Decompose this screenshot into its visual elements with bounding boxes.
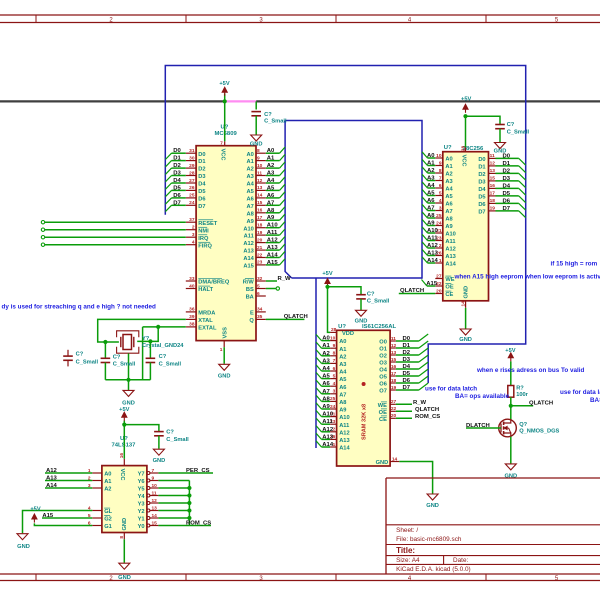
pin decoder Y7 (pin 7) xyxy=(147,472,150,475)
svg-text:HALT: HALT xyxy=(198,287,213,293)
bus entry RAM A8 xyxy=(316,395,322,401)
svg-text:A14: A14 xyxy=(46,483,58,489)
pin RAM A5 (pin 5) xyxy=(330,378,337,380)
wire ROM OE xyxy=(427,285,435,287)
pin E (pin 34) xyxy=(256,311,266,313)
svg-text:if 15 high = rom: if 15 high = rom xyxy=(551,260,598,267)
svg-text:A1: A1 xyxy=(267,156,275,162)
wire RAM CE xyxy=(396,417,412,419)
svg-text:10: 10 xyxy=(436,153,442,159)
svg-text:Y2: Y2 xyxy=(138,509,145,515)
svg-text:Y0: Y0 xyxy=(138,524,145,530)
wire +5V to ROM VCC xyxy=(465,115,467,148)
svg-text:BA: BA xyxy=(246,295,254,301)
svg-text:A0: A0 xyxy=(339,339,346,345)
pin MRDY (pin 36) xyxy=(186,311,196,313)
bus entry ROM A3 xyxy=(422,174,428,180)
svg-text:A15: A15 xyxy=(243,264,253,270)
wire A12 to decoder A0 xyxy=(45,472,92,474)
svg-text:16: 16 xyxy=(490,183,496,189)
pin ROM D7 (pin 19) xyxy=(489,210,496,212)
svg-text:9: 9 xyxy=(152,475,155,481)
svg-text:A13: A13 xyxy=(322,434,334,440)
svg-text:A13: A13 xyxy=(243,249,253,255)
wire D0 xyxy=(172,152,186,154)
wire ROM D2 xyxy=(496,172,519,174)
wire A12 xyxy=(266,242,280,244)
pin ROM D1 (pin 12) xyxy=(489,165,496,167)
svg-text:WE: WE xyxy=(378,403,387,409)
wire D5 xyxy=(172,189,186,191)
svg-text:17: 17 xyxy=(391,371,397,377)
svg-text:A3: A3 xyxy=(322,358,330,364)
svg-text:A12: A12 xyxy=(427,243,439,249)
svg-text:O1: O1 xyxy=(379,347,387,353)
svg-text:25: 25 xyxy=(330,396,336,402)
bus entry ROM A2 xyxy=(422,167,428,173)
pin A4 (pin 12) xyxy=(256,182,266,184)
svg-text:2: 2 xyxy=(439,243,442,249)
svg-text:A5: A5 xyxy=(247,189,254,195)
svg-text:A6: A6 xyxy=(247,197,254,203)
svg-text:+5V: +5V xyxy=(219,81,229,87)
title block xyxy=(386,478,600,574)
pin ROM D2 (pin 13) xyxy=(489,172,496,174)
pin RAM D4 (pin 16) xyxy=(390,368,396,370)
pin decoder A2 (pin 3) xyxy=(92,487,102,489)
svg-text:Y6: Y6 xyxy=(138,479,145,485)
ground xyxy=(427,494,438,500)
svg-text:D1: D1 xyxy=(173,156,181,162)
bus entry RAM D2 xyxy=(419,348,428,355)
pin D7 (pin 24) xyxy=(186,204,196,206)
pin RAM D3 (pin 15) xyxy=(390,361,396,363)
wire RAM A14 xyxy=(322,446,331,448)
pin RAM A7 (pin 3) xyxy=(330,393,337,395)
pin ROM A10 (pin 21) xyxy=(435,232,443,234)
svg-text:OE: OE xyxy=(379,410,387,416)
wire EXTAL drop to crystal right pin xyxy=(137,327,158,342)
svg-text:A0: A0 xyxy=(267,148,275,154)
svg-text:25: 25 xyxy=(436,213,442,219)
sheet border top xyxy=(0,14,600,16)
pin D0 (pin 31) xyxy=(186,152,196,154)
svg-text:A12: A12 xyxy=(243,241,253,247)
svg-text:use for data latch: use for data latch xyxy=(560,389,600,396)
ground xyxy=(123,390,134,396)
ground xyxy=(119,563,130,569)
wire resistor to drain xyxy=(510,397,512,419)
svg-text:C?: C? xyxy=(264,112,272,118)
svg-text:A4: A4 xyxy=(339,370,347,376)
svg-text:A8: A8 xyxy=(427,213,435,219)
wire RAM GND xyxy=(399,462,432,494)
svg-text:D1: D1 xyxy=(503,161,511,167)
svg-text:28: 28 xyxy=(189,170,195,176)
wire A2 xyxy=(266,167,280,169)
svg-text:22: 22 xyxy=(257,252,263,258)
svg-text:O4: O4 xyxy=(379,368,387,374)
svg-text:ROM_CS: ROM_CS xyxy=(415,414,440,420)
bus entry RAM A9 xyxy=(316,403,322,409)
svg-text:37: 37 xyxy=(189,217,195,223)
svg-text:A2: A2 xyxy=(322,351,330,357)
svg-text:D7: D7 xyxy=(173,200,181,206)
svg-text:A4: A4 xyxy=(322,366,330,372)
svg-text:GND: GND xyxy=(122,518,128,531)
svg-text:U?: U? xyxy=(338,324,346,330)
svg-text:9: 9 xyxy=(439,160,442,166)
transistor Q? Q_NMOS_DGS xyxy=(499,419,517,437)
svg-text:A14: A14 xyxy=(427,258,439,264)
svg-text:C_Small: C_Small xyxy=(507,130,530,136)
bus entry RAM D4 xyxy=(419,362,428,369)
pin RAM A14 (pin 1) xyxy=(330,446,337,448)
svg-text:C?: C? xyxy=(76,351,84,357)
svg-text:23: 23 xyxy=(257,260,263,266)
wire decoder GND xyxy=(123,539,125,563)
svg-text:14: 14 xyxy=(460,301,466,307)
bus entry RAM A14 xyxy=(316,441,322,447)
svg-text:18: 18 xyxy=(490,198,496,204)
bus entry A8 xyxy=(280,207,286,213)
wire RAM D1 xyxy=(396,347,419,349)
wire RAM D7 xyxy=(396,389,419,391)
svg-text:A13: A13 xyxy=(339,438,349,444)
svg-text:GND: GND xyxy=(494,149,507,155)
ground xyxy=(356,310,367,316)
svg-text:A8: A8 xyxy=(445,217,452,223)
svg-text:+5V: +5V xyxy=(505,348,515,354)
pin RAM A11 (pin 23) xyxy=(330,423,337,425)
bus entry A0 xyxy=(280,147,286,153)
pin Q (pin 35) xyxy=(256,318,266,320)
pin ROM OE (pin 22) xyxy=(435,285,443,287)
wire ROM A0 xyxy=(428,157,436,159)
svg-text:D4: D4 xyxy=(503,183,511,189)
bus entry A15 xyxy=(280,259,286,265)
svg-text:D4: D4 xyxy=(173,178,181,184)
svg-text:3: 3 xyxy=(192,232,195,238)
svg-text:A1: A1 xyxy=(322,343,330,349)
svg-text:O6: O6 xyxy=(379,382,387,388)
svg-text:32: 32 xyxy=(257,276,263,282)
svg-text:D6: D6 xyxy=(198,197,205,203)
svg-text:A13: A13 xyxy=(46,475,58,481)
svg-text:NMI: NMI xyxy=(198,228,209,234)
svg-text:D7: D7 xyxy=(503,206,511,212)
pin A6 (pin 14) xyxy=(256,197,266,199)
wire RAM A10 xyxy=(322,416,331,418)
svg-text:EXTAL: EXTAL xyxy=(198,326,217,332)
svg-text:A8: A8 xyxy=(339,400,346,406)
bus address top horizontal xyxy=(285,121,422,279)
svg-text:12: 12 xyxy=(257,178,263,184)
ground xyxy=(505,464,516,470)
svg-text:A15: A15 xyxy=(426,281,438,287)
bus entry A15 to ROM OE xyxy=(422,280,427,287)
bus entry ROM D0 xyxy=(519,158,526,165)
svg-text:A14: A14 xyxy=(339,446,350,452)
pin RAM A13 (pin 26) xyxy=(330,438,337,440)
bus entry A11 xyxy=(280,229,286,235)
svg-text:O5: O5 xyxy=(379,375,387,381)
pin RAM A0 (pin 10) xyxy=(330,340,337,342)
pin A9 (pin 17) xyxy=(256,219,266,221)
svg-text:C_Small: C_Small xyxy=(264,118,287,124)
svg-text:A12: A12 xyxy=(322,427,334,433)
bus entry ROM A4 xyxy=(422,182,428,188)
svg-text:GND: GND xyxy=(250,141,263,147)
bus entry A12 xyxy=(280,236,286,242)
wire ROM A2 xyxy=(428,172,436,174)
pin decoder VCC (pin 16) xyxy=(123,459,125,466)
pin ROM A8 (pin 25) xyxy=(435,217,443,219)
svg-text:VCC: VCC xyxy=(119,469,125,481)
svg-text:8: 8 xyxy=(257,148,260,154)
wire A4 xyxy=(266,182,280,184)
svg-text:R_W: R_W xyxy=(413,400,427,406)
svg-text:15: 15 xyxy=(257,200,263,206)
svg-text:A10: A10 xyxy=(427,228,439,234)
svg-text:A7: A7 xyxy=(267,200,275,206)
svg-text:VCC: VCC xyxy=(460,155,466,167)
svg-text:12: 12 xyxy=(490,161,496,167)
bus entry RAM D1 xyxy=(419,341,428,348)
wire RESET xyxy=(45,221,186,223)
svg-text:A6: A6 xyxy=(322,381,330,387)
svg-text:G2: G2 xyxy=(104,517,112,523)
svg-text:A2: A2 xyxy=(104,487,111,493)
svg-text:A12: A12 xyxy=(445,247,455,253)
pin A8 (pin 16) xyxy=(256,212,266,214)
svg-text:D3: D3 xyxy=(173,171,181,177)
bus entry A7 xyxy=(280,199,286,205)
svg-text:Q: Q xyxy=(249,318,254,324)
wire A11 xyxy=(266,234,280,236)
wire D4 xyxy=(172,182,186,184)
svg-text:D7: D7 xyxy=(478,210,485,216)
svg-text:A1: A1 xyxy=(104,479,111,485)
bus entry RAM A1 xyxy=(316,342,322,348)
svg-text:CE: CE xyxy=(379,417,387,423)
pin RAM A8 (pin 25) xyxy=(330,400,337,402)
wire RAM A3 xyxy=(322,362,331,364)
svg-text:KiCad E.D.A. kicad (5.0.0): KiCad E.D.A. kicad (5.0.0) xyxy=(396,566,471,573)
svg-text:A2: A2 xyxy=(445,172,452,178)
bus entry RAM A13 xyxy=(316,433,322,439)
svg-text:A10: A10 xyxy=(267,223,279,229)
wire ROM A3 xyxy=(428,180,436,182)
svg-text:14: 14 xyxy=(392,456,398,462)
svg-text:25: 25 xyxy=(189,193,195,199)
wire D6 xyxy=(172,197,186,199)
wire +5V to CPU VCC xyxy=(224,93,226,141)
wire Y7 PER_CS xyxy=(158,472,213,474)
capacitor C? left of crystal xyxy=(104,342,106,358)
pin RAM D7 (pin 19) xyxy=(390,389,396,391)
svg-text:4: 4 xyxy=(333,381,336,387)
wire RAM OE xyxy=(396,410,412,412)
svg-text:13: 13 xyxy=(391,350,397,356)
wire RAM A9 xyxy=(322,408,331,410)
bus entry ROM A5 xyxy=(422,189,428,195)
pin RAM CE (pin 20) xyxy=(390,417,396,419)
bus entry ROM D7 xyxy=(519,211,526,218)
pin decoder Y4 (pin 11) xyxy=(147,494,150,497)
wire gnd rail xyxy=(105,379,150,381)
wire A15 xyxy=(266,264,280,266)
bus entry ROM A1 xyxy=(422,159,428,165)
svg-text:C?: C? xyxy=(113,354,121,360)
svg-text:D1: D1 xyxy=(198,159,205,165)
svg-text:R/W: R/W xyxy=(243,280,255,286)
bus entry A6 xyxy=(280,192,286,198)
wire branch to ROM decoupling cap xyxy=(466,116,501,124)
bus entry RAM D7 xyxy=(419,383,428,390)
svg-text:O7: O7 xyxy=(379,389,387,395)
bus entry RAM A3 xyxy=(316,357,322,363)
svg-text:10: 10 xyxy=(152,483,158,489)
bus entry RAM D0 xyxy=(419,334,428,341)
svg-text:A13: A13 xyxy=(267,245,279,251)
bus entry RAM A5 xyxy=(316,372,322,378)
pin decoder Y3 (pin 12) xyxy=(147,502,150,505)
op chip U? 74LS137 decoder body xyxy=(102,466,147,533)
wire RAM D5 xyxy=(396,375,419,377)
svg-text:A10: A10 xyxy=(339,415,349,421)
wire A3 xyxy=(266,175,280,177)
svg-text:BA= ops available: BA= ops available xyxy=(590,397,600,404)
svg-text:QLATCH: QLATCH xyxy=(529,400,553,406)
wire CPU VSS to GND xyxy=(223,347,225,364)
wire ROM GND xyxy=(465,308,467,329)
svg-text:C_Small: C_Small xyxy=(367,299,390,305)
pin ROM A11 (pin 23) xyxy=(435,240,443,242)
bus entry A10 xyxy=(280,222,286,228)
pin ROM A2 (pin 8) xyxy=(435,172,443,174)
wire D1 xyxy=(172,160,186,162)
svg-text:A6: A6 xyxy=(339,385,346,391)
bus entry D2 xyxy=(165,168,171,174)
svg-text:A7: A7 xyxy=(427,206,435,212)
bus entry D5 xyxy=(165,190,171,196)
bus entry A14 xyxy=(280,251,286,257)
pin VCC (pin 7) xyxy=(224,141,226,145)
bus entry A2 xyxy=(280,162,286,168)
wire BS stub with open end xyxy=(266,288,277,290)
pin ROM A4 (pin 6) xyxy=(435,187,443,189)
bus entry RAM D6 xyxy=(419,376,428,383)
pin NMI (pin 2) xyxy=(186,229,196,231)
pin RAM A1 (pin 9) xyxy=(330,347,337,349)
wire RAM A6 xyxy=(322,385,331,387)
svg-text:11: 11 xyxy=(391,336,396,342)
svg-text:5: 5 xyxy=(439,190,442,196)
pin RAM A12 (pin 2) xyxy=(330,431,337,433)
wire A13 to decoder A1 xyxy=(45,480,92,482)
pin decoder Y0 (pin 15) xyxy=(147,524,150,527)
wire pink segment xyxy=(225,100,257,102)
pin RAM VDD (pin 28) xyxy=(330,331,337,333)
wire +5V to RAM VDD xyxy=(328,286,331,332)
pin IRQ (pin 3) xyxy=(186,236,196,238)
svg-text:dy is used for streaching q an: dy is used for streaching q and e high ?… xyxy=(2,303,156,310)
svg-text:A1: A1 xyxy=(445,164,452,170)
bus entry RAM A6 xyxy=(316,380,322,386)
wire ROM A4 xyxy=(428,187,436,189)
svg-text:A10: A10 xyxy=(445,232,455,238)
svg-text:15: 15 xyxy=(152,520,158,526)
svg-text:A4: A4 xyxy=(267,178,275,184)
pin VSS (pin 1) xyxy=(223,341,225,348)
pin RAM A2 (pin 8) xyxy=(330,355,337,357)
svg-text:A13: A13 xyxy=(445,254,455,260)
pin ROM D3 (pin 15) xyxy=(489,180,496,182)
svg-text:3: 3 xyxy=(439,205,442,211)
svg-text:BA= ops available: BA= ops available xyxy=(455,393,510,400)
pin RAM GND (pin 14) xyxy=(390,461,399,463)
svg-text:1: 1 xyxy=(220,347,223,353)
svg-text:Size: A4: Size: A4 xyxy=(396,557,420,564)
svg-text:3: 3 xyxy=(333,389,336,395)
capacitor C? right of crystal xyxy=(149,341,151,358)
bus entry ROM A10 xyxy=(422,227,428,233)
svg-text:WE: WE xyxy=(445,277,454,283)
bus entry RAM A0 xyxy=(316,334,322,340)
wire Q to QLATCH xyxy=(266,318,305,320)
wire XTAL net xyxy=(98,319,186,342)
svg-text:2: 2 xyxy=(192,225,195,231)
svg-text:A7: A7 xyxy=(322,389,330,395)
ground xyxy=(251,135,262,141)
wire gray rail right xyxy=(256,100,600,102)
pin BS (pin 5) xyxy=(256,288,266,290)
svg-text:VDD: VDD xyxy=(342,331,354,337)
svg-text:A0: A0 xyxy=(104,472,111,478)
bus entry D0 xyxy=(165,153,171,159)
pin decoder GND (pin 8) xyxy=(123,533,125,540)
svg-text:File: basic-mc6809.sch: File: basic-mc6809.sch xyxy=(396,536,462,543)
svg-text:C_Small: C_Small xyxy=(159,362,182,368)
svg-text:5: 5 xyxy=(333,373,336,379)
svg-text:A14: A14 xyxy=(322,442,334,448)
svg-text:GND: GND xyxy=(504,474,517,480)
wire RAM A0 xyxy=(322,340,331,342)
svg-text:D2: D2 xyxy=(198,167,205,173)
svg-text:C_Small: C_Small xyxy=(166,437,189,443)
wire RAM D3 xyxy=(396,361,419,363)
pin decoder Y5 (pin 10) xyxy=(147,487,150,490)
capacitor C? RAM decoupling xyxy=(356,294,366,296)
wire +5V to resistor xyxy=(510,361,512,385)
svg-text:A11: A11 xyxy=(244,234,254,240)
svg-text:6: 6 xyxy=(439,183,442,189)
svg-text:A7: A7 xyxy=(445,209,452,215)
svg-text:A2: A2 xyxy=(247,167,254,173)
wire ROM A12 xyxy=(428,247,436,249)
svg-text:A5: A5 xyxy=(267,185,275,191)
wire A9 xyxy=(266,219,280,221)
pin ROM A6 (pin 4) xyxy=(435,202,443,204)
svg-text:+5V: +5V xyxy=(30,506,40,512)
wire RAM A2 xyxy=(322,355,331,357)
svg-text:28: 28 xyxy=(331,327,337,333)
svg-text:A10: A10 xyxy=(322,412,334,418)
pin RAM D1 (pin 12) xyxy=(390,347,396,349)
svg-text:A11: A11 xyxy=(445,239,455,245)
pin RAM D0 (pin 11) xyxy=(390,340,396,342)
